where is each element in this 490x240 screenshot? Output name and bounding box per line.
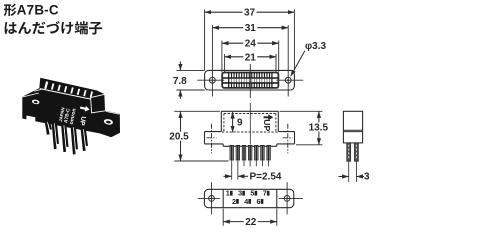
svg-text:1: 1	[226, 189, 230, 198]
svg-text:φ3.3: φ3.3	[305, 41, 326, 52]
svg-text:21: 21	[245, 52, 257, 63]
svg-text:3: 3	[364, 172, 370, 183]
svg-text:5: 5	[250, 189, 254, 198]
svg-text:P=2.54: P=2.54	[250, 172, 282, 183]
svg-text:24: 24	[245, 39, 257, 50]
svg-text:6: 6	[257, 197, 261, 206]
svg-text:A7B-C: A7B-C	[17, 3, 59, 18]
svg-text:37: 37	[244, 8, 256, 19]
svg-text:4: 4	[244, 197, 248, 206]
svg-text:13.5: 13.5	[309, 122, 329, 133]
svg-text:3: 3	[238, 189, 242, 198]
svg-text:20.5: 20.5	[169, 132, 189, 143]
svg-text:2: 2	[232, 197, 236, 206]
svg-text:7: 7	[263, 189, 267, 198]
svg-text:22: 22	[245, 217, 257, 228]
svg-text:7.8: 7.8	[173, 76, 187, 87]
svg-text:UP: UP	[262, 119, 272, 131]
svg-text:9: 9	[237, 118, 243, 129]
svg-text:31: 31	[245, 23, 257, 34]
